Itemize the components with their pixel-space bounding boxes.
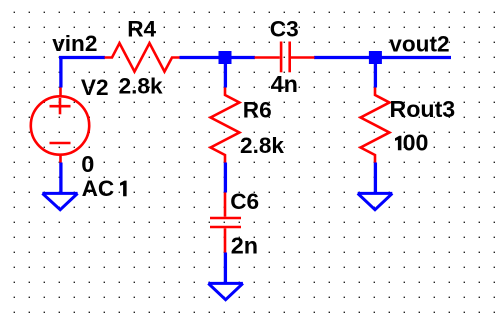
svg-text:C3: C3	[270, 16, 299, 41]
svg-text:4n: 4n	[271, 71, 298, 97]
svg-text:V2: V2	[81, 75, 109, 100]
svg-text:2n: 2n	[231, 233, 258, 259]
svg-text:C6: C6	[230, 189, 259, 214]
svg-text:0: 0	[81, 151, 94, 177]
svg-text:2.8k: 2.8k	[240, 133, 284, 158]
svg-text:R4: R4	[127, 16, 156, 41]
svg-text:Rout3: Rout3	[390, 96, 456, 122]
svg-text:00: 00	[403, 129, 429, 155]
svg-text:vout2: vout2	[389, 32, 449, 57]
svg-text:vin2: vin2	[52, 31, 97, 56]
svg-text:R6: R6	[243, 98, 272, 123]
svg-text:AC: AC	[82, 176, 115, 201]
svg-text:2.8k: 2.8k	[119, 73, 163, 98]
